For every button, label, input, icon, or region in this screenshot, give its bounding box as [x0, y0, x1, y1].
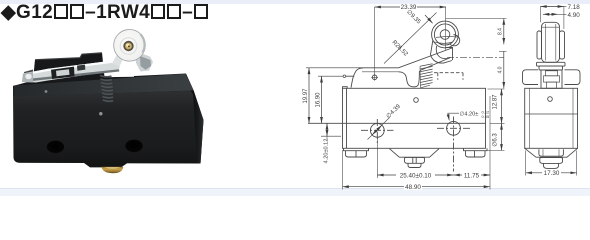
photo: right side sliver [191, 90, 204, 163]
text 11.75 [462, 172, 481, 178]
photo: speck on top band [45, 90, 48, 93]
case seam line [308, 122, 486, 124]
centre mechanism stack [541, 70, 562, 88]
dim 4.90 [543, 13, 558, 15]
dim 7.18 [540, 6, 564, 8]
right hole [447, 121, 461, 135]
pivot anchor line and eyelet [346, 75, 354, 77]
photo: lever arm assembly [22, 60, 120, 83]
svg-text:25.40±0.10: 25.40±0.10 [400, 172, 432, 179]
right hole centrelines [437, 127, 472, 129]
svg-text:4.20±0.12: 4.20±0.12 [324, 139, 330, 164]
text 48.90 [404, 184, 422, 190]
dim 6.3 [501, 123, 503, 150]
text 17.30 [542, 170, 561, 176]
photo: switch front face [13, 91, 197, 164]
photo: hinge grey piece left of lever [24, 70, 34, 82]
dim 19.97 [308, 68, 310, 124]
photo: moulding dot on front face [99, 112, 102, 115]
left hole centrelines [361, 119, 394, 144]
svg-text:8.4: 8.4 [497, 28, 503, 35]
photo: glossy top face band [14, 74, 194, 97]
fork right hook [450, 35, 460, 46]
svg-text:0.05: 0.05 [482, 114, 491, 119]
svg-text:11.75: 11.75 [464, 173, 480, 180]
body outline [343, 88, 486, 148]
photo: rear block top highlight [35, 53, 101, 60]
dia 9.35 leader [425, 15, 433, 23]
photo: right mounting hole [125, 140, 142, 153]
svg-text:∅4.20±: ∅4.20± [460, 111, 479, 118]
right side screw bump [565, 70, 581, 85]
roller outer circle [432, 21, 459, 48]
dia 4.39 diagonal dim [372, 125, 382, 135]
lower terminal screw [540, 158, 563, 164]
bottom boss [525, 148, 578, 157]
centre terminal boss [390, 149, 440, 158]
photo: roller wheel [114, 30, 146, 62]
fork edges seen through roller [436, 36, 458, 37]
lever hinge pin [372, 75, 377, 80]
top-left lug [343, 87, 348, 89]
front view terminals [344, 148, 488, 167]
photo: bottom centre bump of case [84, 163, 127, 167]
right screw terminal [464, 148, 488, 150]
svg-text:48.90: 48.90 [405, 184, 421, 191]
photo: full dark silhouette of switch body incl. rear block [13, 53, 204, 168]
dim 48.90 [343, 186, 491, 188]
roller edge-on [542, 22, 560, 62]
body outline [525, 88, 578, 148]
photo: helical spring [100, 76, 113, 102]
text 23.39 [400, 4, 417, 10]
chained travel dims right of roller [446, 18, 507, 20]
centre terminal screw [405, 157, 425, 163]
svg-text:17.30: 17.30 [544, 170, 560, 177]
photo: lever slots [51, 67, 75, 79]
text 25.40 [396, 172, 435, 178]
photo: roller bracket fork [112, 47, 128, 67]
roller bracket fork [431, 41, 453, 64]
left screw terminal [344, 148, 369, 150]
lever spring pocket [399, 71, 420, 87]
svg-text:4.0: 4.0 [497, 66, 503, 73]
left side screw bump [523, 70, 539, 85]
svg-text:16.90: 16.90 [316, 92, 322, 108]
dim 4.20 tol [326, 123, 328, 136]
small pilot circle on body [414, 98, 419, 103]
pressed-position phantom lines [434, 72, 463, 74]
roller inner circle [434, 24, 455, 45]
photo: roller pin [120, 38, 137, 55]
roller pin circle [440, 30, 450, 40]
lever arm free position [359, 48, 452, 68]
photo: white gap wedge between lever and mechanism [111, 63, 135, 77]
pilot circle [548, 97, 553, 102]
photo: left mounting hole [47, 141, 64, 154]
svg-text:7.18: 7.18 [568, 4, 581, 11]
body inner left wall line [346, 88, 348, 148]
svg-text:4.90: 4.90 [568, 12, 581, 19]
lever S-curved left end [351, 68, 363, 88]
svg-text:R26.52: R26.52 [391, 40, 409, 58]
dim 23.39 [375, 6, 446, 8]
upper terminal screw [539, 149, 564, 156]
svg-text:12.87: 12.87 [493, 94, 499, 110]
photo: brass terminal screw [102, 167, 124, 174]
fork side plates [537, 31, 542, 59]
svg-text:∅6.3: ∅6.3 [492, 133, 499, 147]
R26.52 leader [384, 13, 437, 64]
dim 12.87 [501, 89, 503, 123]
dim 16.90 [321, 76, 323, 123]
lever cross-section bands [537, 62, 566, 66]
dim 17.30 [526, 172, 577, 174]
body seam line [525, 113, 578, 115]
svg-text:∅4.39: ∅4.39 [385, 103, 402, 120]
spring coil [420, 64, 433, 88]
dia 4.20 leader [448, 113, 459, 120]
dim 25.40 [377, 174, 453, 176]
dim 11.75 [454, 174, 491, 176]
svg-text:19.97: 19.97 [303, 88, 309, 104]
left hole [370, 123, 384, 137]
